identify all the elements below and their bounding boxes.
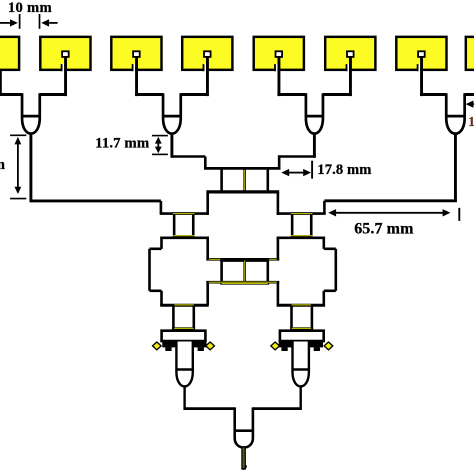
T-junction combiner C1 <box>22 93 40 133</box>
patch P3 <box>111 37 161 96</box>
left cross section <box>150 238 209 305</box>
wire C2 to divider block (left input) <box>171 157 206 169</box>
patch P4 <box>182 37 232 96</box>
wire C3 to divider block (right input) <box>279 155 316 168</box>
right branch neck transformer <box>290 305 313 328</box>
patch P1 <box>0 37 19 70</box>
right branch arrow markers <box>271 342 333 350</box>
wire patch P1 feed <box>0 71 2 96</box>
patch P8 <box>466 37 474 70</box>
patch P6 <box>325 37 375 96</box>
node row H1 (input lines into side transformers) <box>160 212 326 215</box>
center cross section <box>206 192 279 305</box>
wire P1 to C1 <box>0 93 22 96</box>
quarter-wave transformer block (lower, two squares) <box>206 259 279 283</box>
wire C4 long horizontal <box>324 201 456 214</box>
left branch diode blocks <box>162 341 206 351</box>
patch P2 <box>40 37 90 96</box>
output T-junction combiner <box>235 407 253 447</box>
wire right branch to output combiner <box>253 407 302 410</box>
svg-text:17.8 mm: 17.8 mm <box>317 162 371 178</box>
wire P7 to C4 <box>420 93 446 96</box>
dimension right edge (clipped) <box>466 101 474 129</box>
svg-text:65.7 mm: 65.7 mm <box>354 220 414 237</box>
dimension left edge (clipped label) <box>0 135 26 198</box>
wire C1 stem <box>29 134 32 203</box>
T-junction combiner C2 <box>163 93 181 133</box>
svg-text:28.8 mm: 28.8 mm <box>0 157 5 173</box>
left branch stub tube and stem <box>176 342 192 410</box>
patch P5 <box>254 37 304 96</box>
dimension 17.8 mm <box>281 161 371 179</box>
transformer B_R <box>291 214 313 237</box>
transformer B_L <box>173 214 195 237</box>
svg-text:17.8: 17.8 <box>468 114 474 129</box>
right cross section <box>277 238 336 305</box>
patch P7 <box>396 37 446 96</box>
wire left branch to output combiner <box>184 407 235 410</box>
wire P5 to C3 <box>277 93 306 96</box>
left branch neck transformer <box>172 305 195 328</box>
output port stem <box>241 446 247 470</box>
svg-text:10 mm: 10 mm <box>8 0 52 16</box>
wire C2 to P4 <box>181 93 209 96</box>
left branch arrow markers <box>153 342 215 350</box>
wire C4 to P8 <box>465 93 474 96</box>
quarter-wave transformer block (upper, two squares) <box>204 168 281 192</box>
wire C4 stem <box>454 134 457 202</box>
T-junction combiner C3 <box>306 93 323 133</box>
wire C2 stem <box>170 134 173 158</box>
wire C1 to P2 <box>40 93 67 96</box>
dimension 65.7 mm <box>328 208 459 237</box>
right branch stub tube and stem <box>293 342 309 410</box>
left branch bias bar <box>160 331 206 341</box>
dimension 11.7 mm (C2 stem) <box>95 136 168 155</box>
wire C1 long horizontal <box>30 201 161 214</box>
wire P3 to C2 <box>135 93 163 96</box>
dimension 10 mm (patch gap) <box>0 0 58 29</box>
T-junction combiner C4 <box>446 93 464 133</box>
right branch diode blocks <box>279 341 323 351</box>
wire C3 stem <box>313 134 316 158</box>
right branch bias bar <box>279 331 325 341</box>
wire C3 to P6 <box>323 93 352 96</box>
svg-text:11.7 mm: 11.7 mm <box>95 136 150 152</box>
